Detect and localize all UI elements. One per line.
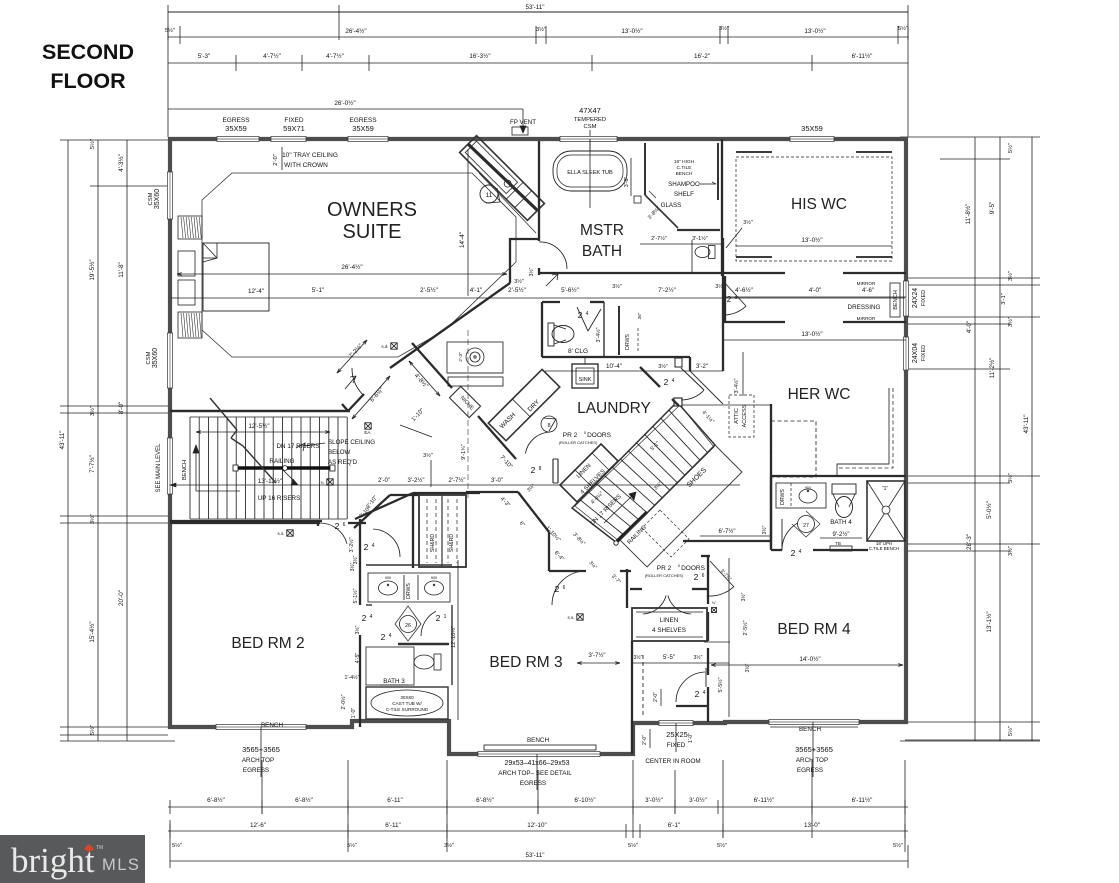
svg-text:BED RM 3: BED RM 3 [489,654,562,671]
closet dashed rods [426,499,428,563]
svg-text:“1”: “1” [882,486,888,492]
vanity room walls [366,564,452,566]
svg-text:35X60: 35X60 [154,189,161,209]
svg-text:BED RM 2: BED RM 2 [231,635,304,652]
svg-text:6'-11½": 6'-11½" [754,796,775,804]
her wc counter [837,388,889,477]
svg-text:2: 2 [381,632,386,642]
svg-text:6'-8½": 6'-8½" [295,796,313,804]
svg-text:BENCH: BENCH [893,290,899,310]
owners bottom wall [170,410,350,412]
svg-text:DRWS: DRWS [625,334,631,350]
svg-text:16" HIGH: 16" HIGH [674,159,695,165]
svg-text:7'-2½": 7'-2½" [658,286,676,294]
svg-text:(ROLLER CATCHES): (ROLLER CATCHES) [645,573,684,578]
svg-text:ARCH TOP: ARCH TOP [242,757,274,764]
mstr entry arrow [546,274,558,286]
bottom row1 ticks [169,800,171,814]
svg-text:10" TRAY CEILING: 10" TRAY CEILING [282,152,338,159]
smoke det corridor [391,343,397,349]
owners bed fold [203,257,217,259]
bath4 fixtures drws [776,483,826,508]
svg-text:¾": ¾" [712,601,717,605]
svg-text:13'-0½": 13'-0½" [621,27,642,35]
window egress 35x59 mid [348,136,388,141]
bottom row2 ticks [169,824,171,838]
svg-text:10'-4": 10'-4" [606,363,622,370]
stairs lower dashed closet [642,510,689,557]
svg-text:5½": 5½" [717,842,727,849]
svg-text:3'-4½": 3'-4½" [595,327,602,342]
svg-text:CENTER IN ROOM: CENTER IN ROOM [645,758,700,765]
right dim line2 [974,137,976,741]
corridor dim 4-8.5 [409,361,440,396]
svg-text:CSM: CSM [584,124,597,130]
wc 8clg room [541,302,543,357]
window 29x53 bedrm3 [478,751,600,756]
svg-text:2: 2 [362,613,367,623]
svg-text:2'-0": 2'-0" [642,735,648,745]
svg-text:DOORS: DOORS [587,432,612,439]
window 24x04 right [903,337,908,370]
exterior bottom wall bedrm3 [447,752,635,756]
svg-text:EA.: EA. [364,430,371,435]
svg-text:BATH 3: BATH 3 [383,678,405,685]
svg-text:ATTIC: ATTIC [734,408,740,424]
svg-text:900: 900 [385,576,391,580]
dressing walls [723,321,785,323]
door 26 circle [395,606,421,641]
window 3565 bedrm2 [216,724,306,729]
svg-text:5½": 5½" [89,725,96,735]
svg-text:12'-10½": 12'-10½" [450,626,457,648]
svg-text:59X71: 59X71 [283,124,305,133]
svg-text:BENCH: BENCH [182,460,188,480]
svg-text:2: 2 [694,572,699,582]
closet door arc [705,668,707,687]
svg-text:3'-0½": 3'-0½" [689,796,707,804]
svg-text:16'-2": 16'-2" [694,53,710,60]
dim 14-4 vertical [467,150,469,296]
dim line 53'-11 top [168,11,908,13]
svg-text:30X60: 30X60 [400,695,414,700]
stairwell dim 12-5 [196,431,330,433]
bottom ext vert lines [347,760,349,852]
mstr left wall [538,141,540,241]
svg-text:5½": 5½" [165,27,175,34]
smoke det ea [365,423,371,429]
svg-text:SINK: SINK [579,377,592,383]
svg-text:2: 2 [335,521,340,531]
svg-text:GLASS: GLASS [661,202,682,209]
shoes closet [620,445,742,567]
svg-text:1'-0": 1'-0" [688,733,694,743]
svg-text:3'-7½": 3'-7½" [589,652,606,659]
svg-text:4'-7½": 4'-7½" [263,52,281,60]
svg-text:SLOPE CEILING: SLOPE CEILING [328,439,375,446]
laundry closet drws [618,306,620,355]
svg-text:3'-8": 3'-8" [624,177,630,188]
owners corner vert wall [509,238,511,283]
svg-text:27: 27 [803,523,809,529]
smoke det bedrm3 [577,614,583,620]
stairwell railing bar [237,466,332,469]
svg-text:6'-7½": 6'-7½" [719,528,736,535]
svg-text:3½": 3½" [1007,473,1014,483]
svg-text:14'-4": 14'-4" [459,232,466,248]
svg-text:6'-10½": 6'-10½" [574,796,595,804]
svg-text:UP 16 RISERS: UP 16 RISERS [258,495,301,502]
svg-text:ACCESS: ACCESS [742,404,748,427]
exterior bottom wall bedrm4 [723,720,908,724]
svg-text:FIXED: FIXED [921,290,927,306]
svg-text:2'-5½": 2'-5½" [742,620,749,635]
svg-text:4'-0": 4'-0" [809,287,822,294]
svg-text:FP VENT: FP VENT [510,119,536,126]
svg-text:4: 4 [389,633,392,639]
svg-text:25X25: 25X25 [666,730,688,739]
bedrm3 vert dim [457,560,459,720]
svg-text:3'-0½": 3'-0½" [645,796,663,804]
svg-text:3½": 3½" [761,525,768,534]
svg-text:EGRESS: EGRESS [349,117,377,124]
svg-text:12'-5½": 12'-5½" [248,422,269,430]
svg-text:3½": 3½" [658,363,668,370]
window fixed 59x71 [271,136,306,141]
owners corner diag wall B [390,283,510,368]
svg-text:2: 2 [695,689,700,699]
svg-text:BELOW: BELOW [328,449,351,456]
svg-text:C-TILE SURROUND: C-TILE SURROUND [386,707,429,712]
bath4 shower circle [882,506,890,514]
bedrm2 top wall [170,522,320,524]
window 47x47 tempered [560,136,617,141]
stairwell top wall [170,410,350,412]
svg-text:TM: TM [96,845,103,851]
tub dim [630,158,632,196]
svg-text:(ROLLER CATCHES): (ROLLER CATCHES) [559,440,598,445]
dim 2-0 left 25x25 [649,729,651,748]
svg-text:3½": 3½" [423,452,433,459]
laundry dim 10-4 [545,370,723,372]
svg-text:s.d.: s.d. [381,344,388,349]
svg-text:BENCH: BENCH [527,737,549,744]
svg-text:DRWS: DRWS [780,489,786,505]
svg-text:3½": 3½" [1007,317,1014,327]
svg-text:1: 1 [444,614,447,620]
svg-text:6'-11": 6'-11" [385,822,401,829]
svg-text:43'-11": 43'-11" [1023,414,1030,433]
svg-text:4: 4 [672,378,675,384]
svg-text:3½": 3½" [1007,271,1014,281]
her wc closet dashed [771,421,816,477]
svg-text:3'-1": 3'-1" [1001,293,1007,305]
svg-text:5'-5½": 5'-5½" [717,677,724,692]
svg-text:BED RM 4: BED RM 4 [777,621,851,638]
svg-text:2'-0½": 2'-0½" [340,694,347,709]
svg-text:2'-7½": 2'-7½" [449,477,466,484]
svg-text:900: 900 [805,486,811,490]
mstr wc walls [691,240,693,273]
dressing door [723,281,746,306]
owners corner diag wall A [348,394,364,411]
svg-text:3565+3565: 3565+3565 [795,745,833,754]
laundry right wall [689,357,691,371]
mstr vanity sink [466,348,484,366]
linen diag closet [560,444,618,502]
svg-text:11'-8½": 11'-8½" [964,204,972,225]
svg-text:4'-6": 4'-6" [862,288,874,294]
door marker 27 [792,511,820,537]
svg-text:5½": 5½" [172,842,182,849]
svg-text:43'-11": 43'-11" [59,430,66,449]
svg-text:12'-4": 12'-4" [248,288,264,295]
svg-text:HIS WC: HIS WC [791,196,847,213]
hall diag jog [354,495,390,528]
bright mls logo [0,835,145,883]
niche box [449,386,480,417]
laundry sink box [572,364,598,388]
bedrm3 closet top wall [413,492,480,494]
stairs top notch [674,398,682,406]
shower bench wall [717,143,719,200]
svg-text:26: 26 [405,623,411,629]
closet wall below linen [631,641,633,754]
svg-text:3½": 3½" [514,278,524,285]
svg-text:13'-11½": 13'-11½" [258,477,282,485]
exterior bottom wall bath3 [350,719,450,723]
svg-text:2'-0": 2'-0" [273,154,279,166]
dim row bottom2 [168,830,908,832]
window 3565 bedrm4 [769,719,859,724]
her wc door [675,358,682,367]
her wc west wall [770,404,772,548]
svg-text:TEMPERED: TEMPERED [574,117,606,123]
window 25x25 hall [659,720,693,725]
svg-text:1'-4½": 1'-4½" [345,674,360,681]
svg-text:5½": 5½" [1007,143,1014,153]
svg-text:19'-5½": 19'-5½" [88,259,96,280]
svg-text:CAST TUB W/: CAST TUB W/ [392,701,422,706]
svg-text:C.TILE: C.TILE [677,165,692,171]
mstr bottom wall [538,272,785,274]
dim row y488 [170,484,740,486]
svg-text:BATH: BATH [582,243,622,260]
svg-text:6: 6 [343,522,346,528]
window csm 35x60 lower-left [167,333,172,388]
linen closet bedrm34 [632,608,707,641]
dim 6-7.5 [700,535,771,537]
svg-text:FLOOR: FLOOR [50,69,126,93]
curtain hatch upper [178,216,202,239]
svg-text:35X60: 35X60 [152,348,159,368]
bath3 toilet [414,654,441,670]
svg-text:LINEN: LINEN [660,617,679,624]
svg-text:3½": 3½" [536,26,546,33]
svg-text:HER WC: HER WC [788,386,851,403]
svg-text:EGRESS: EGRESS [520,780,546,787]
bedrm2 right wall [359,519,361,553]
svg-text:11: 11 [486,192,493,199]
dim 9-1.75 vertical [467,330,469,500]
svg-text:s.s.: s.s. [277,531,284,536]
svg-text:9'-1¾": 9'-1¾" [461,444,467,460]
shower glass diag [645,195,678,228]
svg-text:14'-0½": 14'-0½" [799,655,820,663]
exterior bottom wall bedrm2 [168,725,354,729]
svg-text:SEE MAIN LEVEL: SEE MAIN LEVEL [156,443,162,493]
exterior bottom wall hall [631,721,727,725]
top ext lines vert [338,5,340,40]
bath4 sink [799,489,817,503]
svg-text:9'-2½": 9'-2½" [833,531,850,538]
svg-text:5'-0½": 5'-0½" [985,501,993,519]
svg-text:35X59: 35X59 [801,124,823,133]
svg-text:36": 36" [637,312,642,319]
bedrm3 door arc [552,571,586,605]
svg-text:5½": 5½" [89,139,96,149]
exterior top wall [168,137,908,141]
svg-text:6'-8½": 6'-8½" [207,796,225,804]
svg-text:DRESSING: DRESSING [848,304,881,311]
svg-text:3½": 3½" [634,654,643,661]
svg-text:13'-0½": 13'-0½" [801,236,822,244]
callout 11 circle [480,185,498,203]
svg-text:4'-3½": 4'-3½" [117,154,125,172]
svg-text:2'-3": 2'-3" [458,352,464,362]
his wc inner walls [736,151,772,153]
svg-text:11'-8": 11'-8" [118,262,125,278]
svg-text:24X24: 24X24 [912,288,919,308]
bedrm34 wall stub [701,555,710,557]
corridor wall W2a [412,343,452,388]
hall vanity sinks [379,581,398,595]
svg-text:2: 2 [436,613,441,623]
svg-text:3½": 3½" [612,283,622,290]
svg-text:3½": 3½" [694,654,703,661]
svg-text:MIRROR: MIRROR [857,316,876,321]
svg-text:PR 2: PR 2 [563,432,578,439]
shower left wall [644,143,646,195]
svg-text:MSTR: MSTR [580,222,624,239]
svg-text:4'-6½": 4'-6½" [735,286,753,294]
svg-text:3½": 3½" [719,25,729,32]
svg-text:53'-11": 53'-11" [525,852,544,859]
svg-text:SHAMPOO: SHAMPOO [668,181,700,188]
mstr wc toilet [695,246,715,259]
svg-text:8' CLG: 8' CLG [568,348,588,355]
window egress 35x59 left [217,136,259,141]
svg-text:LAUNDRY: LAUNDRY [577,400,651,417]
svg-text:3½": 3½" [528,267,535,276]
svg-text:4'-1": 4'-1" [470,287,483,294]
his wc tile dashed [736,157,892,261]
owners entry arrow [345,376,356,389]
svg-text:4: 4 [370,614,373,620]
svg-text:5½": 5½" [893,842,903,849]
svg-text:53'-11": 53'-11" [525,4,544,11]
left dim line2 [97,140,99,741]
svg-text:3'-0": 3'-0" [491,478,503,484]
svg-text:13'-1½": 13'-1½" [985,611,993,632]
hall vanity counter [368,573,450,602]
bath4 door [781,519,783,550]
svg-text:5½": 5½" [898,25,908,32]
svg-text:C.TILE BENCH: C.TILE BENCH [869,546,899,551]
svg-text:3½": 3½" [744,663,751,672]
svg-text:2: 2 [727,295,732,304]
svg-text:4: 4 [799,549,802,555]
bedrm3 top wall stub [549,570,586,572]
fireplace hearth line [479,173,536,233]
svg-text:4: 4 [586,311,589,317]
dim row2 top line [168,36,908,38]
his wc left wall [721,139,723,276]
stairwell bottom wall [170,520,322,522]
bedrm4 dim 14-0 [711,664,903,666]
svg-text:SECOND: SECOND [42,40,134,64]
window 35x59 right [790,136,834,141]
svg-text:20'-0": 20'-0" [118,590,125,606]
svg-text:2: 2 [555,584,560,594]
svg-text:5'-1½": 5'-1½" [352,588,359,603]
svg-text:ARCH TOP: ARCH TOP [796,757,828,764]
svg-text:OWNERS: OWNERS [327,199,417,221]
svg-text:3'-2": 3'-2" [696,364,708,370]
right tick lines [905,739,1040,741]
svg-text:bright: bright [11,841,95,880]
wc 8clg bifold door [577,307,588,331]
svg-text:3½": 3½" [743,219,753,226]
smoke det dimrow [327,479,333,485]
svg-text:2: 2 [531,465,536,475]
left tick lines [60,412,168,414]
svg-text:2'-5½": 2'-5½" [508,286,526,294]
tray ceiling octagon [202,173,516,357]
mstr dim row 240 [640,243,723,245]
svg-text:2: 2 [364,542,369,552]
svg-text:SHELF: SHELF [674,191,694,198]
svg-text:5½": 5½" [1007,726,1014,736]
svg-text:5'-3": 5'-3" [198,53,211,60]
svg-text:4: 4 [703,690,706,696]
smoke det stairs [287,530,293,536]
ella tub [553,151,627,191]
interior dim 26-4 line [177,273,507,275]
svg-text:4'-5": 4'-5" [355,653,361,664]
svg-text:5'-1": 5'-1" [312,287,325,294]
laundry stair wall [640,367,660,387]
shower bottom wall [677,229,720,231]
dressing bench [890,283,900,317]
svg-text:2'-0": 2'-0" [378,478,390,484]
svg-text:3'-2½": 3'-2½" [408,477,425,484]
svg-text:6: 6 [702,573,705,579]
svg-text:WITH CROWN: WITH CROWN [284,162,328,169]
svg-text:MIRROR: MIRROR [857,281,876,286]
right dim line3 [999,137,1001,741]
svg-text:24X04: 24X04 [912,343,919,363]
hall bottom wall [683,540,771,542]
svg-text:2: 2 [664,377,669,387]
washdry block [488,369,559,440]
svg-text:TB: TB [835,541,841,546]
svg-text:8: 8 [547,423,550,429]
svg-text:9'-5": 9'-5" [989,202,996,215]
svg-text:2'-5½": 2'-5½" [420,286,438,294]
owners bed [203,243,269,311]
svg-text:15'-4½": 15'-4½" [88,621,96,642]
